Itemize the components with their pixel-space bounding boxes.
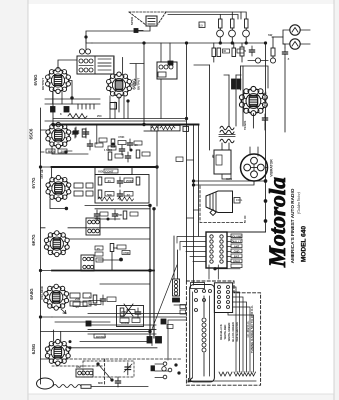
dashed shield box osc coil [83,361,134,377]
transformer T4 extra hatches [79,59,111,70]
node dots lamp bus [219,42,221,44]
label box spark [234,198,240,204]
node dot V4 bottom [65,207,68,210]
wire stub y43 left [86,37,92,43]
labels right of pair [180,305,186,309]
bus y317 [52,316,187,318]
svg-text:OSC-MOD: OSC-MOD [40,286,44,300]
dashed enclosure spark [200,186,245,223]
vertical x198.5 [198,125,200,237]
wire y341.6 [80,342,152,346]
svg-text:WHITE-BROWN: WHITE-BROWN [235,322,239,341]
electrolytic C31 [237,79,241,89]
pilot lamp A2 [290,39,300,49]
tuner chassis rounded box [190,285,215,382]
svg-text:ANT: ANT [76,365,82,369]
tube V5 6K7G [44,231,69,257]
svg-text:WHITE-RED: WHITE-RED [223,325,227,340]
wire V1 grid right to node [70,81,73,99]
small box right of tone [183,126,189,131]
cable fan wires [228,287,254,372]
capacitor C5 [83,128,88,138]
speaker SP1 dashed cone [129,12,166,25]
wire V4 bottom curve [50,199,66,209]
pilot feed resistor [270,37,283,63]
fuse diamond [210,210,216,216]
terminal label boxes [231,234,242,268]
vertical pair x174 [174,236,178,279]
control head dashed box [186,281,260,385]
components bottom mid dots [97,363,121,387]
cable arrow terminals [219,372,256,376]
bus y239 [68,238,150,240]
svg-text:25M: 25M [75,297,81,301]
capacitor C32 [282,48,287,58]
dark rect y321 [86,321,91,326]
partial line y322 [55,321,110,323]
label box y334 [94,334,105,338]
diagonal pointer wire [152,265,177,329]
resistor R20 bottom [81,385,91,389]
strip to head verticals [209,265,240,279]
svg-text:COIL: COIL [236,198,243,202]
svg-text:MW: MW [98,381,103,385]
vertical bus x186.5 long [186,43,188,281]
bus y334 [88,333,156,335]
label stack left of T3 [95,246,103,262]
junction dots y43 bus [143,42,145,44]
wire hash y181 [194,180,266,182]
switch contact right [248,58,268,63]
svg-text:SPKR: SPKR [130,16,134,25]
resistor R31 [231,19,235,28]
plug box [214,283,232,313]
svg-text:.02: .02 [126,193,130,197]
tuner inner verticals [193,292,210,378]
svg-text:HARM: HARM [121,321,130,325]
tuner label box [191,283,205,289]
left margin strip [0,0,28,400]
stub ticks on left bus [41,130,53,359]
transformer verticals [229,66,243,126]
wire y347.8 [68,347,157,349]
components under AF box [112,210,138,220]
electrolytic C30 [232,79,236,89]
wire speaker down to transformer [86,26,150,49]
junction dots heavy buses [52,123,55,126]
output transformer T4 loops top [79,49,90,54]
node dot right bus b [264,220,267,223]
terminal leads left stepping [177,237,206,262]
osc coil vertical x176 [173,279,180,296]
page edge bottom [28,393,334,395]
tube V1 6V6G [46,68,71,94]
svg-text:50K: 50K [113,246,118,250]
lamp I3 [243,30,250,37]
wires into head left [168,305,186,360]
bus pair y121 [45,120,187,122]
svg-text:GND: GND [234,249,240,253]
wires T1 to vibrator box [222,143,229,150]
svg-text:AMERICA'S FINEST AUTO RADIO: AMERICA'S FINEST AUTO RADIO [290,188,295,263]
vertical x157 mid [156,131,158,206]
capacitor C33 [262,114,267,124]
svg-text:.05: .05 [134,143,138,147]
right margin strip [334,0,339,400]
svg-text:40: 40 [223,49,226,53]
component cluster right of V6 [70,293,116,306]
svg-text:Motorola: Motorola [265,177,291,268]
box left edge [240,66,242,90]
resistor R34 [217,48,230,57]
node dot V1 grid [71,97,74,100]
wire y205.5 [85,205,150,207]
components right of V3 [73,127,103,150]
node dot y181 [264,180,267,183]
components right of V4 rows [74,183,93,196]
node dot V3 bottom [65,151,67,153]
pilot lamp leads [283,30,310,44]
svg-text:470K: 470K [123,251,129,255]
page edge right [333,0,335,400]
terminal circle x164 [162,367,166,371]
svg-text:250: 250 [97,114,102,118]
lamp I2 [229,30,236,37]
tube V9 vibrator [241,154,268,181]
head corner arrow [188,378,192,382]
svg-text:.05: .05 [96,247,100,251]
svg-text:VIBRATOR: VIBRATOR [270,159,274,177]
resistor R30 [219,19,223,28]
wire vibrator right [266,167,268,169]
node dots left bus [39,166,41,168]
choke feed verticals [161,43,170,119]
svg-text:VOLUME: VOLUME [231,234,242,238]
resistor cluster y138-160 x108-142 [108,139,142,162]
svg-text:ANT: ANT [234,244,240,248]
svg-text:OUTPUT: OUTPUT [137,78,141,91]
resistor zigzag R5 [68,114,87,119]
vertical wire x53 V1 to bus [52,92,54,124]
rect filter box [241,66,269,88]
resistor stubs top right [220,12,232,19]
tube V2 6V6G [107,72,132,98]
wire vibrator bottom [194,181,254,185]
bus y331.5 [52,331,150,333]
label cluster MICA under V3 [46,149,72,153]
wire speaker top pair right [166,12,241,19]
svg-text:.006: .006 [60,150,66,154]
trimmer cap bottom [124,363,132,375]
heavy bus y270.5 [52,270,154,272]
IF transformer T2 [86,218,100,235]
svg-text:(Golden Voice): (Golden Voice) [297,191,301,213]
svg-text:2ND: 2ND [121,310,126,314]
svg-text:WHITE-GREEN: WHITE-GREEN [227,323,231,342]
socket strip under tubes [45,104,100,109]
svg-text:6V6G: 6V6G [33,74,38,86]
svg-text:6K7G: 6K7G [31,234,36,246]
resistor R32 [245,19,249,28]
resistor R40 [240,43,244,62]
bus pair y118.5 [53,118,187,120]
vertical x96.8 [96,125,98,145]
antenna coil L1 [76,369,93,377]
svg-text:4B: 4B [211,155,215,158]
osc X-cross wires [124,304,133,316]
pilot lamp A1 [290,25,300,35]
terminal leads right [227,237,231,262]
wire R32 top [241,12,246,19]
pair end blob B [147,337,152,344]
svg-text:2.5: 2.5 [199,24,203,28]
tone control boxed [158,125,180,130]
antenna ellipse [37,378,54,389]
head left terminals [155,362,180,379]
node dots V7 right [69,341,71,343]
tube V4 1st AF [46,175,71,201]
top margin strip [28,0,334,4]
svg-text:RED-BLACK: RED-BLACK [219,324,223,340]
dashed y366 [52,365,104,367]
svg-text:SPKR: SPKR [233,259,240,263]
node dot speaker wire [85,36,87,38]
svg-text:6578: 6578 [226,177,232,181]
resistor R35 [232,43,244,57]
vibrator top stubs [250,147,258,156]
pair end blob A [156,337,162,344]
capacitor C2 top right of T4 [134,29,143,33]
speaker SP1 voice coil [146,16,157,26]
svg-text:0Z4 RECT.: 0Z4 RECT. [264,91,268,108]
component box under V2 [110,97,129,112]
bus y325 [88,324,156,326]
node dot y268 [214,268,216,270]
head bottom bus [190,380,256,382]
wire V1 plate to T4 [58,60,77,69]
vertical bus x209.5 [209,65,211,150]
svg-text:470K: 470K [116,213,122,217]
dark blocks near osc coil [173,298,180,302]
tone box left extension [151,125,158,130]
wire C33 down [264,124,266,130]
wires V7 top [54,330,61,341]
heavy bus y124.5 [53,124,199,126]
svg-text:BLACK-GREEN: BLACK-GREEN [231,322,235,341]
dark rect near x152 [151,366,155,371]
svg-text:MICA: MICA [48,150,55,154]
wire y99 under tubes [45,98,100,100]
osc section box [117,306,144,327]
components x110 y243 [98,244,130,271]
link wires right verticals [187,160,199,218]
svg-text:250M: 250M [126,179,133,183]
wire V2 screen vertical [122,58,124,74]
svg-text:.05: .05 [75,305,79,309]
wire x285 top [283,43,285,45]
choke box mid [157,61,177,79]
extra components band y210-222 [94,210,120,220]
volume control box [95,168,132,175]
bottom wire run [91,386,148,388]
heavy bus y167 [52,166,157,168]
bus y227.8 [68,227,150,229]
tube V6 6A8G [44,284,69,310]
wire y208.8 [95,208,150,210]
vertical bus x265.5 [265,43,267,232]
svg-text:50: 50 [94,303,97,307]
power transformer T1 [219,126,235,143]
svg-text:PADDER: PADDER [96,336,106,339]
verticals under top tubes [62,92,128,119]
tuner terminals [195,290,212,312]
svg-text:6J5G: 6J5G [31,343,36,354]
tuner coil vertical [202,296,206,376]
svg-text:1ST AF: 1ST AF [40,169,44,179]
osc band labels y300-306 [73,302,87,307]
resistor R33 [212,43,216,62]
antenna shield squiggle [53,385,81,388]
vertical pair x154 [153,209,155,338]
svg-text:TRANS: TRANS [243,121,247,130]
capacitor C4 [72,128,77,138]
wire long bus y43 [92,42,266,44]
AF network components [98,177,140,201]
node dot right bus a [264,200,267,203]
wire V1 cathode down [52,92,54,104]
svg-text:TUNING RANGE 540 TO 1600 K.C.: TUNING RANGE 540 TO 1600 K.C. [250,305,254,353]
tube V3 6SC6 [46,122,71,148]
lamp leads [220,28,246,43]
extra components band y140-160 [99,138,150,158]
svg-text:1 MEG: 1 MEG [104,148,112,152]
svg-text:470K: 470K [118,135,124,139]
wire V2 plate to T4 [113,58,115,74]
wire V3 bottom leads [52,146,88,154]
tube V7 osc [45,339,70,365]
wire V2 right to y63 [130,64,144,86]
resistor R1 dark [51,107,56,113]
wire x285 drop [284,44,286,132]
bus y329.6 [88,329,156,331]
page edge left [27,0,29,400]
vertical pair x150 [149,206,151,339]
svg-text:6Y7G: 6Y7G [31,177,36,189]
bus y284 [100,283,150,285]
wire rect bottom [252,114,254,129]
arrow into bus [61,309,66,314]
svg-text:50K: 50K [107,193,112,197]
svg-text:VOL CONT: VOL CONT [98,170,114,174]
svg-text:OUTPUT: OUTPUT [41,78,45,91]
wire V4 feed [51,167,53,178]
wire y65 right [194,64,210,66]
wire x265 into strip [227,231,266,233]
svg-text:6SC6: 6SC6 [29,128,34,139]
svg-text:15: 15 [243,49,246,53]
bus y313.5 [88,313,187,315]
tube V8 0Z4 [239,86,267,115]
dashed vertical x104.6 [104,359,106,385]
resistor R2 dark [64,107,69,113]
vertical x193.5 [193,125,195,286]
svg-text:DIAL LT: DIAL LT [232,239,242,243]
svg-text:6A8G: 6A8G [29,288,34,300]
spark filter housing [206,191,233,213]
lamp I1 [217,30,224,37]
wire y131 [144,130,157,132]
osc box internals [120,308,141,323]
vertical bus left x40.5 [40,108,42,384]
svg-text:.01: .01 [107,179,111,183]
AF network big box [95,175,149,204]
dark blob x161 [161,319,166,324]
small comp x252 y47 [249,46,254,56]
svg-text:MODEL 640: MODEL 640 [301,226,308,262]
bottom margin strip [28,394,334,400]
value sprinkles [48,24,290,386]
IF transformer T3 [81,255,94,271]
output transformer T4 assembly box [77,56,114,74]
label 6578 box [176,157,183,162]
label box top right corner [199,22,205,28]
wire T1 tops [224,74,241,76]
terminal strip [206,232,227,268]
dashed shield y359 [52,358,182,360]
svg-text:BAT: BAT [234,254,240,258]
svg-text:SW: SW [268,33,273,37]
vibrator transformer box [214,150,231,179]
vertical bus x144 top [143,43,145,124]
